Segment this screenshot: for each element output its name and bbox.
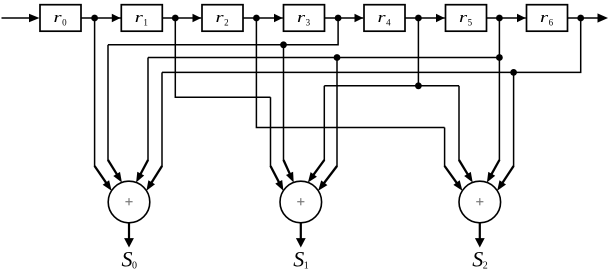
svg-text:4: 4 — [386, 18, 391, 28]
svg-text:0: 0 — [132, 261, 137, 271]
node after r1 — [172, 15, 179, 22]
node r4 bus junction — [415, 82, 422, 89]
wire r3 to r4 — [325, 17, 364, 19]
register r6 — [527, 5, 568, 32]
arrow into r4 — [355, 14, 364, 23]
register r1 — [121, 5, 162, 32]
arrow into r1 — [112, 14, 121, 23]
arrow into r6 — [517, 14, 526, 23]
wire S2 output — [479, 223, 481, 240]
wire r3 tap bus — [108, 18, 338, 45]
xor adder S1 — [280, 181, 322, 223]
wire r2 to r3 — [243, 17, 283, 19]
node r3 bus junction — [280, 41, 287, 48]
node after r4 — [415, 15, 422, 22]
register r3 — [284, 5, 325, 32]
wire r6 bus to S0 — [146, 72, 162, 190]
wire r0 to r1 — [81, 17, 121, 19]
arrow into r2 — [193, 14, 202, 23]
wire r2 bus to S2 — [445, 128, 463, 191]
wire r3 bus to S1 — [284, 45, 294, 183]
node after r0 — [91, 15, 98, 22]
svg-text:2: 2 — [224, 18, 229, 28]
wire r5 bus to S1 — [318, 58, 337, 191]
register r5 — [446, 5, 487, 32]
wire output line — [568, 17, 600, 19]
svg-text:3: 3 — [306, 18, 311, 28]
wire r4 tap drop — [417, 18, 419, 86]
arrow S2 output — [475, 238, 485, 247]
wire r4 bus to S2 — [459, 86, 473, 183]
wire r1 bus to S1 — [271, 97, 284, 191]
svg-text:6: 6 — [549, 18, 554, 28]
arrow S1 output — [296, 238, 306, 247]
register r4 — [364, 5, 405, 32]
wire r5 bus to S0 — [136, 58, 148, 183]
wire r0 tap to S0 — [95, 18, 112, 191]
node r5 bus junction left — [334, 54, 341, 61]
wire r2 tap bus — [256, 18, 444, 128]
register r2 — [202, 5, 243, 32]
wire r4 to r5 — [405, 17, 445, 19]
svg-text:1: 1 — [304, 261, 309, 271]
wire r3 bus to S0 — [108, 45, 122, 183]
svg-text:2: 2 — [483, 261, 488, 271]
wire r5 to r6 — [487, 17, 526, 19]
arrow output — [598, 13, 609, 22]
node r5 bus junction — [496, 54, 503, 61]
xor adder S2 — [459, 181, 501, 223]
wire r5 tap bus — [148, 57, 499, 59]
svg-text:S: S — [293, 246, 304, 271]
wire S1 output — [300, 223, 302, 240]
label S1 — [293, 246, 309, 271]
svg-text:S: S — [122, 246, 133, 271]
wire r1 to r2 — [162, 17, 201, 19]
node r6 bus junction — [510, 69, 517, 76]
svg-text:5: 5 — [468, 18, 473, 28]
node after r2 — [253, 15, 260, 22]
arrow into r5 — [436, 14, 445, 23]
arrow into r0 — [29, 14, 40, 22]
wire r6 bus to S2 — [497, 72, 513, 190]
node after r6 — [577, 15, 584, 22]
node after r5 — [496, 15, 503, 22]
arrow S0 output — [124, 238, 134, 247]
xor adder S0 — [108, 181, 150, 223]
wire input line — [2, 17, 34, 19]
node after r3 — [335, 15, 342, 22]
wire r4 bus to S1 — [308, 86, 324, 183]
arrow into r3 — [274, 14, 283, 23]
wire r6 tap bus — [162, 18, 581, 72]
register r0 — [40, 5, 81, 32]
svg-text:0: 0 — [62, 18, 67, 28]
wire S0 output — [128, 223, 130, 240]
label S0 — [122, 246, 138, 271]
wire r5 drop to S2 — [487, 18, 500, 183]
wire r4 tap bus — [324, 85, 459, 87]
wire r1 tap bus — [175, 18, 270, 97]
svg-text:1: 1 — [143, 18, 148, 28]
label S2 — [472, 246, 488, 271]
svg-text:S: S — [472, 246, 483, 271]
